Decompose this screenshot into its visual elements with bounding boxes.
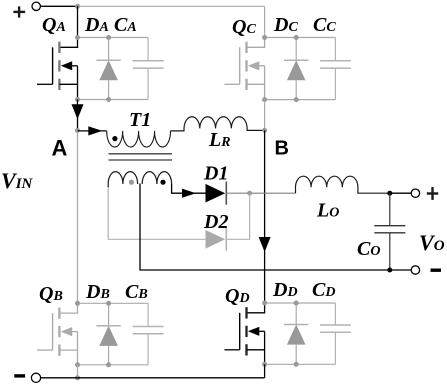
wire: D2 cathode up-tie (gray) — [226, 193, 249, 239]
wire: Q_A drain feed — [77, 6, 79, 37]
junction: Q_A drain — [75, 35, 80, 40]
junction: D_A bottom — [106, 97, 111, 102]
capacitor C_D — [334, 303, 336, 325]
junction: Q_C source — [262, 97, 267, 102]
diode D_D — [295, 303, 297, 325]
junction: D_B top — [106, 301, 111, 306]
junction: D_D top — [294, 301, 299, 306]
wire: secondary top end to D1 anode — [172, 184, 206, 193]
wire: D1 cathode to L_O — [226, 192, 295, 194]
wire: Q_C drain drop (inactive) — [264, 6, 266, 37]
MOSFET Q_A — [59, 38, 77, 48]
wire: leg D bottom rail (gray) — [265, 363, 336, 365]
wire: to + output terminal — [390, 192, 411, 194]
wire: center tap to output return — [140, 184, 390, 271]
junction: Q_B drain — [75, 301, 80, 306]
wire: Q_B source to bottom rail (gray) — [77, 365, 79, 378]
transformer T1 primary winding — [107, 131, 171, 147]
node B junction — [262, 128, 267, 133]
diode D2 (gray) — [206, 230, 226, 249]
junction: Q_A source — [75, 97, 80, 102]
svg-text:D1: D1 — [203, 163, 228, 185]
wire: leg C bottom rail (gray) — [265, 99, 336, 101]
capacitor C_A — [147, 38, 149, 61]
svg-text:A: A — [52, 136, 68, 161]
diode D_C — [295, 38, 297, 61]
wire: leg A bottom rail (gray) — [78, 99, 149, 101]
wire: Q_A source to node A — [77, 100, 79, 131]
terminal input + — [32, 2, 40, 10]
wire: secondary bottom leg stub — [107, 184, 109, 187]
wire: secondary bottom end to D2 anode (gray) — [108, 186, 205, 239]
wire: leg C top rail (gray) — [265, 37, 336, 39]
capacitor C_C — [334, 38, 336, 61]
MOSFET Q_C (inactive, gray) — [247, 38, 265, 48]
inductor L_R — [171, 117, 265, 131]
junction: top rail at Q_A — [75, 4, 80, 9]
current arrow into T1 primary — [88, 126, 102, 135]
junction: D_C top — [294, 35, 299, 40]
wire: leg B top rail (gray) — [78, 302, 149, 304]
transformer T1 core — [109, 153, 173, 155]
wire: node B down to Q_D drain — [264, 130, 266, 303]
junction: Q_D drain — [262, 301, 267, 306]
label - (input negative) — [14, 374, 25, 377]
wire: node A to Q_B (inactive, gray) — [77, 130, 79, 303]
junction: D_D bottom — [294, 362, 299, 367]
wire: to - output terminal — [390, 269, 411, 271]
wire: leg D top rail (gray) — [265, 302, 336, 304]
label + (output) — [427, 187, 438, 200]
wire: leg B bottom rail (gray) — [78, 364, 149, 366]
diode D_B — [108, 303, 110, 326]
current arrow down into node A — [72, 104, 84, 119]
wire: Q_D source to bottom rail — [264, 364, 266, 378]
junction: D_B bottom — [106, 362, 111, 367]
wire: input + terminal to Q_A drain column — [41, 5, 78, 7]
wire: bottom rail — [41, 377, 265, 379]
junction: Q_C drain — [262, 35, 267, 40]
junction: Q_D source — [262, 362, 267, 367]
capacitor C_B — [147, 303, 149, 326]
svg-text:B: B — [275, 137, 289, 159]
current arrow into D1 — [182, 189, 196, 198]
node A junction — [75, 128, 80, 133]
diode D_A — [108, 38, 110, 61]
MOSFET Q_D — [247, 303, 265, 313]
transformer T1 secondary right half winding — [142, 172, 171, 184]
MOSFET Q_B (inactive, gray) — [59, 303, 77, 313]
junction: C_O return — [387, 268, 392, 273]
wire: leg A top rail (gray) — [78, 37, 149, 39]
junction: D1/D2 cathode tie — [247, 191, 252, 196]
wire: Q_C source to node B (gray) — [264, 100, 266, 131]
junction: Q_B source — [75, 362, 80, 367]
polarity dot T1 primary — [112, 136, 117, 141]
junction: D_C bottom — [294, 97, 299, 102]
inductor L_O — [296, 176, 390, 193]
wire: top rail to Q_C (inactive) — [78, 5, 265, 7]
label - (output) — [431, 269, 442, 272]
junction: L_O / C_O / + output — [387, 191, 392, 196]
junction: bottom rail at Q_B — [75, 375, 80, 380]
svg-text:D2: D2 — [203, 211, 228, 233]
current arrow down toward Q_D — [259, 237, 271, 252]
polarity dot secondary right — [160, 180, 165, 185]
transformer T1 secondary left half winding — [108, 172, 137, 184]
svg-text:T1: T1 — [129, 109, 151, 131]
terminal input - — [31, 373, 40, 382]
diode D1 — [206, 184, 226, 203]
terminal output + — [411, 189, 419, 197]
capacitor C_O — [389, 193, 391, 226]
junction: D_A top — [106, 35, 111, 40]
terminal output - — [411, 266, 419, 274]
label + (input positive) — [13, 6, 25, 17]
wire: node A to T1 primary — [78, 130, 107, 132]
polarity dot secondary left (gray) — [129, 180, 134, 185]
